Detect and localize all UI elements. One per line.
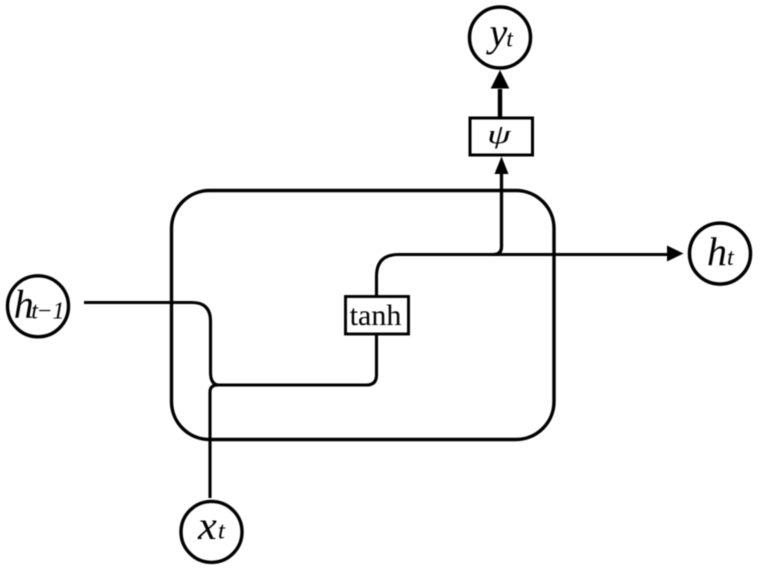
wire merged to tanh: [217, 334, 377, 385]
node h_t: [690, 223, 751, 284]
arrow psi to y_t: [491, 70, 510, 118]
arrowhead into psi: [495, 157, 509, 175]
node h_t-1: [8, 276, 69, 337]
function box psi: [470, 118, 533, 155]
svg-text:tanh: tanh: [350, 299, 402, 332]
wire branch to psi: [494, 173, 502, 255]
wire tanh to h_t output: [377, 255, 669, 297]
wire h_t-1 input: [84, 303, 219, 386]
rnn cell box: [172, 191, 555, 440]
node x_t: [181, 501, 242, 562]
node y_t: [470, 7, 531, 68]
arrowhead to h_t: [667, 246, 684, 262]
svg-text:ψ: ψ: [487, 121, 511, 150]
activation box tanh: [346, 297, 409, 335]
wire x_t input: [210, 385, 218, 498]
